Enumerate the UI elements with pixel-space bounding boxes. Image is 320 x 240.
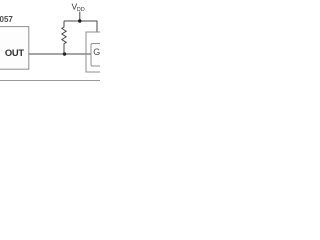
svg-text:OUT: OUT [5, 47, 24, 58]
op-amp U1 (left IC box, cropped at left edge) [0, 27, 29, 70]
svg-text:DD: DD [77, 7, 85, 13]
resistor R1 (pull-up) [62, 21, 66, 54]
svg-text:G: G [93, 47, 100, 57]
svg-text:057: 057 [0, 15, 13, 24]
ground rail (full-width line) [0, 80, 100, 82]
transistor block (right outer box, cropped at right edge) [86, 32, 108, 72]
background [0, 0, 100, 100]
power VDD symbol stub [79, 12, 81, 22]
wire: OUT pin to right block [29, 53, 91, 55]
wire: VDD rail to right block top [64, 21, 97, 32]
node: VDD junction [78, 19, 81, 22]
node: resistor bottom junction [63, 52, 66, 55]
gate sub-block (inner box, cropped at right edge) [91, 44, 108, 67]
